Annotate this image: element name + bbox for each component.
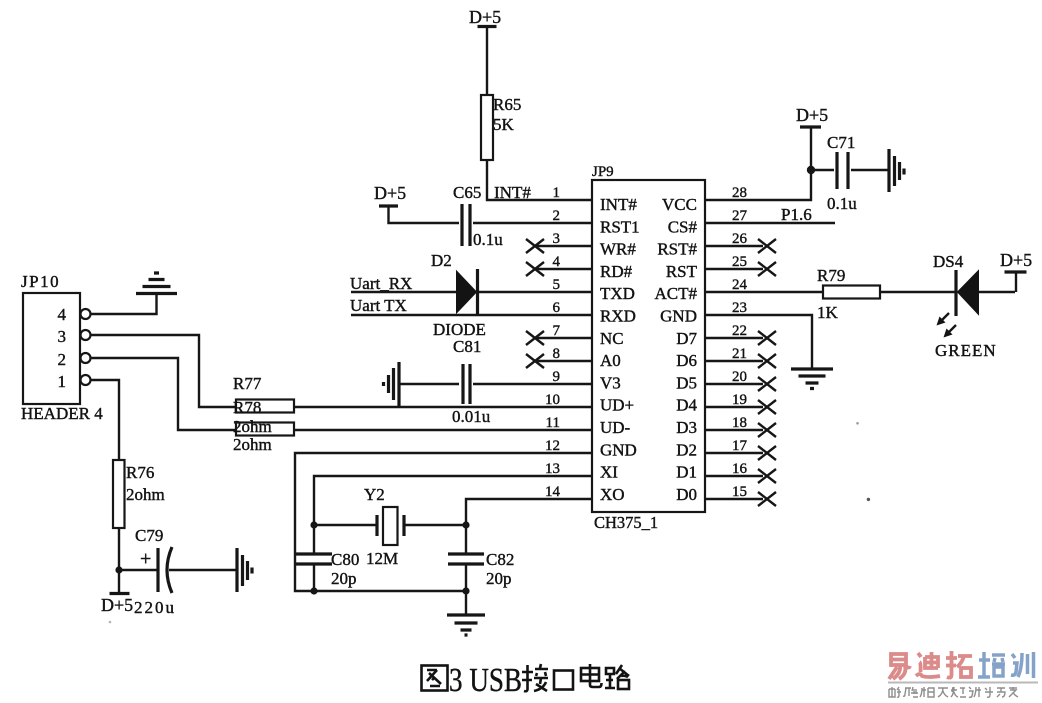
- no-connect X pin21: [758, 354, 776, 368]
- wire Uart_TX to pin6 RXD: [351, 314, 592, 316]
- wire JP10-1 down to R76: [91, 380, 120, 460]
- svg-text:R79: R79: [817, 266, 845, 285]
- svg-text:INT#: INT#: [600, 195, 637, 214]
- no-connect X pin16: [758, 469, 776, 483]
- svg-text:WR#: WR#: [600, 240, 636, 259]
- svg-text:D+5: D+5: [374, 183, 406, 203]
- wire pin26 stub: [705, 245, 763, 247]
- power D+5 (left, feeds C65 net): [374, 183, 406, 206]
- svg-text:D1: D1: [676, 463, 697, 482]
- ground (earth, inverted, above JP10-4): [136, 273, 177, 294]
- wire pin23 GND to ground: [705, 315, 812, 369]
- no-connect X pin8: [526, 354, 544, 368]
- svg-text:20p: 20p: [486, 569, 512, 588]
- wire pin14 XO down to crystal: [466, 499, 592, 554]
- svg-text:D+5: D+5: [796, 105, 828, 125]
- wire pin4 stub: [535, 268, 592, 270]
- svg-text:15: 15: [732, 484, 747, 500]
- svg-text:UD+: UD+: [600, 396, 634, 415]
- wire pin19 stub: [705, 406, 763, 408]
- no-connect X pin18: [758, 423, 776, 437]
- wire pin7 stub: [535, 337, 592, 339]
- svg-text:23: 23: [732, 300, 747, 316]
- wire ground to C81: [399, 383, 459, 385]
- svg-text:21: 21: [732, 346, 747, 362]
- wire pin18 stub: [705, 429, 763, 431]
- resistor R78: [236, 423, 294, 436]
- svg-text:3: 3: [58, 327, 67, 346]
- wire C79 to ground: [169, 569, 237, 571]
- wire R65 to pin1 (INT# net): [487, 160, 592, 200]
- ground (chassis, right of C71): [889, 149, 904, 192]
- svg-text:CH375_1: CH375_1: [594, 513, 658, 532]
- resistor R76: [113, 460, 165, 528]
- wire pin25 stub: [705, 268, 763, 270]
- svg-text:RXD: RXD: [600, 307, 636, 326]
- svg-text:C80: C80: [331, 550, 359, 569]
- svg-text:D2: D2: [676, 440, 697, 459]
- wire junction to C79: [119, 569, 158, 571]
- svg-text:R78: R78: [233, 398, 261, 417]
- svg-text:RST1: RST1: [600, 217, 640, 236]
- svg-text:R76: R76: [126, 463, 154, 482]
- wire C65 to pin2 RST1: [473, 222, 592, 224]
- svg-text:20p: 20p: [331, 569, 357, 588]
- svg-text:5K: 5K: [493, 115, 515, 134]
- wire pin20 stub: [705, 383, 763, 385]
- svg-text:28: 28: [732, 185, 747, 201]
- svg-text:NC: NC: [600, 329, 624, 348]
- wire R77 to pin10 UD+: [294, 406, 592, 408]
- svg-text:22: 22: [732, 323, 747, 339]
- wire crystal left lead: [314, 524, 377, 526]
- resistor R65: [481, 95, 521, 160]
- svg-text:D5: D5: [676, 373, 697, 392]
- wire junction to C71: [811, 169, 834, 171]
- svg-text:Uart TX: Uart TX: [350, 296, 407, 315]
- svg-text:ACT#: ACT#: [655, 284, 698, 303]
- ground (earth, right side): [791, 369, 833, 389]
- pin circle JP10-4: [81, 309, 91, 319]
- wire R79 to LED: [880, 291, 956, 293]
- caption glyph 口: [554, 671, 573, 690]
- watermark subtitle 射频和天线设计专家: [889, 687, 1018, 697]
- svg-text:CS#: CS#: [668, 217, 698, 236]
- wire rail to ground: [465, 591, 467, 615]
- caption glyph 路: [605, 665, 629, 689]
- svg-text:D0: D0: [676, 485, 697, 504]
- svg-text:JP9: JP9: [592, 164, 614, 180]
- svg-text:1K: 1K: [817, 303, 839, 322]
- svg-text:RD#: RD#: [600, 262, 633, 281]
- wire C80 lower plate to rail: [313, 564, 315, 591]
- svg-text:JP10: JP10: [21, 272, 60, 291]
- svg-text:2ohm: 2ohm: [233, 435, 272, 454]
- LED arrows (light emission): [937, 313, 957, 338]
- svg-text:V3: V3: [600, 373, 621, 392]
- svg-text:A0: A0: [600, 351, 621, 370]
- wire D+5 to R65: [486, 27, 488, 96]
- svg-text:19: 19: [732, 392, 747, 408]
- wire C82 lower plate to rail: [465, 564, 467, 591]
- svg-text:2: 2: [58, 350, 67, 369]
- no-connect X pin26: [758, 239, 776, 253]
- pin circle JP10-2: [81, 353, 91, 363]
- svg-text:13: 13: [545, 461, 560, 477]
- svg-text:1: 1: [58, 372, 67, 391]
- svg-text:D4: D4: [676, 396, 697, 415]
- wire D+5 down to pin28 VCC: [705, 127, 811, 200]
- power D+5 (top, feeds R65): [469, 7, 501, 27]
- svg-text:7: 7: [553, 323, 561, 339]
- wire pin3 stub: [535, 245, 592, 247]
- power D+5 (right of LED): [1000, 250, 1032, 292]
- svg-text:12: 12: [545, 438, 560, 454]
- wire pin21 stub: [705, 360, 763, 362]
- svg-text:+: +: [140, 548, 151, 570]
- svg-text:XI: XI: [600, 463, 618, 482]
- svg-text:3 USB: 3 USB: [449, 662, 522, 699]
- svg-text:18: 18: [732, 415, 747, 431]
- wire pin15 stub: [705, 498, 763, 500]
- node junction dot (C80/rail): [310, 587, 317, 594]
- svg-text:Uart_RX: Uart_RX: [350, 274, 412, 293]
- svg-text:GND: GND: [660, 307, 697, 326]
- resistor R77: [236, 400, 294, 413]
- svg-text:C82: C82: [486, 550, 514, 569]
- resistor R79: [817, 266, 880, 322]
- svg-text:14: 14: [545, 484, 561, 500]
- op-amp U1: IC JP9 CH375_1 box: [592, 164, 705, 532]
- node junction dot (XO/crystal/C82): [462, 521, 469, 528]
- capacitor C82: [448, 550, 514, 588]
- svg-text:D6: D6: [676, 351, 697, 370]
- caption glyph 接: [522, 664, 548, 691]
- node junction dot (VCC/C71): [807, 166, 815, 174]
- capacitor C71: [827, 133, 857, 213]
- svg-text:4: 4: [58, 305, 67, 324]
- svg-text:GND: GND: [600, 440, 637, 459]
- scan speck 1: [856, 422, 859, 425]
- capacitor C65: [453, 183, 503, 249]
- pin circle JP10-1: [81, 375, 91, 385]
- no-connect X pin15: [758, 492, 776, 506]
- svg-text:R77: R77: [233, 374, 262, 393]
- no-connect X pin19: [758, 400, 776, 414]
- watermark logo 易迪拓 (pink): [889, 651, 972, 679]
- svg-text:TXD: TXD: [600, 284, 635, 303]
- no-connect X pin4: [526, 262, 544, 276]
- svg-text:C81: C81: [453, 337, 481, 356]
- wire pin16 stub: [705, 475, 763, 477]
- svg-text:RST#: RST#: [657, 240, 697, 259]
- wire pin13 XI down to crystal: [314, 476, 592, 554]
- svg-text:RST: RST: [666, 262, 698, 281]
- svg-text:DS4: DS4: [933, 252, 964, 271]
- wire Uart_RX to diode D2: [351, 291, 457, 293]
- svg-text:Y2: Y2: [364, 485, 385, 504]
- svg-text:UD-: UD-: [600, 418, 631, 437]
- caption 图3 USB接口电路: [422, 662, 630, 699]
- no-connect X pin25: [758, 262, 776, 276]
- svg-text:24: 24: [732, 277, 748, 293]
- wire C71 to ground: [851, 169, 889, 171]
- svg-text:10: 10: [545, 392, 560, 408]
- diode D2: [431, 251, 486, 339]
- wire R78 to pin11 UD-: [294, 429, 592, 431]
- svg-text:2ohm: 2ohm: [126, 485, 165, 504]
- no-connect X pin17: [758, 446, 776, 460]
- node junction dot (C82/rail/ground): [462, 587, 469, 594]
- svg-text:D3: D3: [676, 418, 697, 437]
- svg-text:25: 25: [732, 254, 747, 270]
- svg-text:C79: C79: [135, 526, 163, 545]
- svg-text:C65: C65: [453, 183, 481, 202]
- power D+5 (top right, VCC): [796, 105, 828, 127]
- wire C81 to pin9 V3: [473, 383, 592, 385]
- svg-text:P1.6: P1.6: [781, 205, 812, 224]
- wire pin8 stub: [535, 360, 592, 362]
- svg-text:D7: D7: [676, 329, 697, 348]
- scan speck 3: [109, 621, 112, 624]
- svg-text:11: 11: [546, 415, 560, 431]
- svg-text:C71: C71: [827, 133, 855, 152]
- scan speck 2: [867, 498, 870, 501]
- node junction dot (XI/crystal/C80): [310, 521, 317, 528]
- svg-text:220u: 220u: [134, 598, 176, 617]
- wire pin17 stub: [705, 452, 763, 454]
- wire JP10-3 to R77: [91, 335, 237, 407]
- wire JP10-2 to R78: [91, 358, 237, 430]
- svg-text:4: 4: [553, 254, 561, 270]
- svg-text:5: 5: [553, 277, 561, 293]
- wire JP10-4 to ground: [91, 293, 157, 314]
- watermark logo 培训 (blue): [978, 652, 1034, 678]
- capacitor C79 (polarized): [134, 526, 176, 617]
- svg-text:9: 9: [553, 369, 561, 385]
- svg-text:20: 20: [732, 369, 747, 385]
- svg-text:D2: D2: [431, 251, 452, 270]
- no-connect X pin20: [758, 377, 776, 391]
- wire pin24 ACT# to R79: [705, 291, 823, 293]
- caption glyph 图: [422, 666, 448, 691]
- svg-text:8: 8: [553, 346, 561, 362]
- capacitor C80: [296, 550, 359, 588]
- svg-text:17: 17: [732, 438, 748, 454]
- svg-text:D+5: D+5: [469, 7, 501, 27]
- svg-text:2: 2: [553, 208, 561, 224]
- svg-text:D+5: D+5: [101, 595, 133, 615]
- svg-text:6: 6: [553, 300, 561, 316]
- svg-text:1: 1: [553, 185, 561, 201]
- wire pin12 GND to bottom rail: [295, 453, 592, 591]
- node junction dot (R76/C79/D+5): [115, 566, 122, 573]
- ground (chassis, right of C79): [237, 548, 252, 592]
- no-connect X pin3: [526, 239, 544, 253]
- caption glyph 电: [581, 664, 602, 687]
- svg-text:INT#: INT#: [494, 183, 531, 202]
- no-connect X pin22: [758, 331, 776, 345]
- svg-text:VCC: VCC: [662, 195, 697, 214]
- wire crystal right lead: [404, 524, 466, 526]
- svg-text:12M: 12M: [366, 549, 398, 568]
- watermark underline: [888, 682, 1038, 684]
- ground (chassis, left of C81): [384, 362, 400, 406]
- connector JP10 HEADER 4: [21, 272, 103, 423]
- capacitor C81: [452, 337, 491, 426]
- svg-text:XO: XO: [600, 485, 625, 504]
- ground (earth, below C82): [447, 615, 485, 635]
- svg-text:GREEN: GREEN: [935, 341, 997, 360]
- svg-text:3: 3: [553, 231, 561, 247]
- wire pin22 stub: [705, 337, 763, 339]
- crystal Y2: [364, 485, 404, 568]
- wire R76 to bottom node: [118, 528, 120, 570]
- no-connect X pin7: [526, 331, 544, 345]
- svg-text:0.1u: 0.1u: [473, 230, 503, 249]
- wire D+5 to C65: [389, 206, 460, 223]
- svg-text:0.1u: 0.1u: [827, 194, 857, 213]
- wire pin27 CS# to P1.6: [705, 222, 835, 224]
- svg-text:R65: R65: [493, 95, 521, 114]
- LED DS4: [933, 252, 979, 316]
- pin circle JP10-3: [81, 330, 91, 340]
- wire LED to D+5: [979, 291, 1015, 293]
- svg-text:HEADER 4: HEADER 4: [21, 404, 103, 423]
- power D+5 (bottom left): [101, 570, 133, 615]
- svg-text:26: 26: [732, 231, 748, 247]
- svg-text:0.01u: 0.01u: [452, 407, 491, 426]
- wire diode to pin5 TXD: [478, 291, 592, 293]
- svg-text:D+5: D+5: [1000, 250, 1032, 270]
- svg-text:16: 16: [732, 461, 748, 477]
- svg-text:27: 27: [732, 208, 748, 224]
- svg-text:2ohm: 2ohm: [233, 417, 272, 436]
